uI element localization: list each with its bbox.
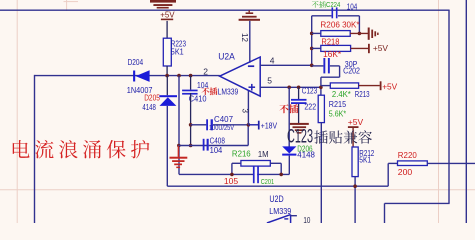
wire D205 anode down to bottom net	[166, 106, 168, 186]
wire far-right vertical	[465, 0, 467, 223]
wire R223 to main node	[166, 66, 168, 76]
svg-text:16K*: 16K*	[323, 49, 342, 59]
wire U2A pin 5	[260, 86, 321, 88]
wire RC branch horizontal left part	[179, 173, 253, 175]
svg-text:5.6K*: 5.6K*	[329, 109, 347, 119]
svg-text:3: 3	[241, 109, 250, 114]
svg-text:5K1: 5K1	[359, 155, 371, 165]
wire top horizontal net	[0, 9, 450, 11]
svg-text:222: 222	[304, 101, 316, 111]
node junction dots on main wire	[165, 74, 169, 78]
wire to C407	[191, 124, 207, 126]
diode D204 1N4007	[133, 71, 135, 82]
big title text	[13, 140, 30, 158]
svg-text:2: 2	[203, 67, 208, 77]
svg-text:C123: C123	[302, 85, 318, 95]
svg-text:D205: D205	[144, 92, 160, 102]
svg-text:R218: R218	[321, 36, 339, 46]
svg-text:U2D: U2D	[269, 194, 284, 204]
ground sideways right	[368, 28, 370, 40]
resistor R220 200	[388, 162, 397, 164]
ground GND2 above U2A pin12	[239, 19, 260, 21]
wire bottom-right horizontal	[385, 202, 450, 204]
svg-text:1M: 1M	[258, 149, 269, 159]
svg-text:105: 105	[224, 176, 239, 186]
svg-text:R216: R216	[232, 149, 251, 159]
sheet grid line horizontal	[0, 189, 475, 191]
wire RC branch horizontal right part	[257, 173, 289, 175]
svg-text:2.4K*: 2.4K*	[332, 89, 352, 99]
svg-text:4148: 4148	[142, 102, 156, 112]
svg-text:4: 4	[270, 55, 275, 65]
wire vertical from main node down	[178, 76, 180, 175]
capacitor C202 30P	[312, 65, 324, 67]
resistor R213 2.4K	[330, 83, 358, 88]
resistor R216 1M	[241, 161, 270, 167]
svg-text:D204: D204	[128, 57, 144, 67]
wire left frame vertical	[34, 75, 36, 223]
svg-text:C201: C201	[261, 177, 274, 186]
ground GND1 top-left (cut off)	[150, 0, 176, 3]
wire main horizontal to U2A pin 2	[35, 75, 220, 77]
svg-text:+5V: +5V	[160, 9, 175, 19]
svg-text:C408: C408	[210, 135, 226, 145]
wire up to R220	[387, 163, 389, 186]
svg-text:C202: C202	[343, 66, 360, 76]
wire C410 ground rail vertical	[190, 93, 192, 146]
svg-text:C224: C224	[326, 0, 340, 9]
diode D205 4148	[166, 76, 168, 96]
power +5V top-left	[161, 19, 173, 21]
resistor R218 16K	[321, 45, 351, 51]
resistor R212 5K1	[352, 147, 358, 177]
svg-text:C410: C410	[189, 94, 207, 104]
svg-text:+5V: +5V	[373, 43, 389, 53]
wire U2A pin 12	[249, 21, 251, 63]
svg-text:R206: R206	[320, 20, 340, 30]
svg-text:R220: R220	[398, 150, 417, 160]
svg-text:R213: R213	[355, 89, 370, 99]
capacitor C407 electrolytic	[206, 119, 208, 130]
svg-text:+5V: +5V	[348, 117, 364, 127]
svg-text:U2A: U2A	[218, 52, 235, 62]
capacitor C410 100n	[190, 76, 192, 90]
svg-text:30K*: 30K*	[342, 20, 360, 30]
ground GND3 red mid	[177, 144, 181, 148]
svg-text:4148: 4148	[297, 150, 315, 160]
wire R215 down to bottom edge	[320, 123, 322, 223]
svg-text:104: 104	[210, 145, 223, 155]
svg-text:10: 10	[303, 215, 310, 223]
wire feedback rail vertical	[311, 16, 313, 66]
ground GND4 below C123	[290, 123, 309, 125]
sheet grid cross mark top	[64, 1, 79, 3]
capacitor C408 100n	[203, 139, 205, 151]
capacitor C123 not fitted	[298, 87, 300, 99]
wire +5V to R223	[166, 21, 168, 38]
power +18V	[247, 123, 251, 127]
label not-fitted LM339	[201, 88, 209, 96]
svg-text:5: 5	[267, 76, 272, 86]
svg-text:LM339: LM339	[218, 86, 239, 96]
wire to C408	[178, 145, 208, 147]
capacitor C224 not fitted	[312, 15, 332, 17]
svg-text:12: 12	[240, 33, 249, 42]
wire U2A pin 3 down	[247, 91, 249, 125]
svg-text:200: 200	[398, 167, 413, 177]
capacitor C201	[253, 166, 255, 183]
wire R212 to bottom net	[354, 177, 356, 223]
sheet grid line vertical right	[438, 0, 440, 223]
svg-text:+5V: +5V	[382, 81, 397, 91]
svg-text:LM339: LM339	[269, 206, 291, 216]
resistor R223	[163, 38, 171, 66]
wire bottom long horizontal net	[167, 185, 388, 187]
wire bottom-right vertical to edge	[384, 203, 386, 223]
resistor R206 30K	[321, 31, 350, 37]
power +5V right of R218	[368, 44, 370, 53]
junction dots on pin 5 wire	[287, 86, 291, 90]
svg-text:104: 104	[347, 2, 358, 12]
svg-text:5K1: 5K1	[171, 47, 184, 57]
resistor R215 5.6K	[318, 95, 324, 122]
sheet grid line vertical left	[16, 0, 18, 223]
wire U2A pin 4	[260, 64, 312, 66]
power +5V right of R213	[380, 81, 382, 90]
diode D206 4148	[288, 87, 290, 146]
svg-text:+18V: +18V	[261, 120, 278, 130]
svg-text:C123: C123	[287, 127, 313, 148]
wire C408 up to +18V node	[247, 125, 249, 146]
op-amp U2A LM339	[220, 57, 261, 96]
svg-text:100U/25V: 100U/25V	[209, 123, 235, 132]
wire right vertical from top net	[448, 10, 450, 203]
